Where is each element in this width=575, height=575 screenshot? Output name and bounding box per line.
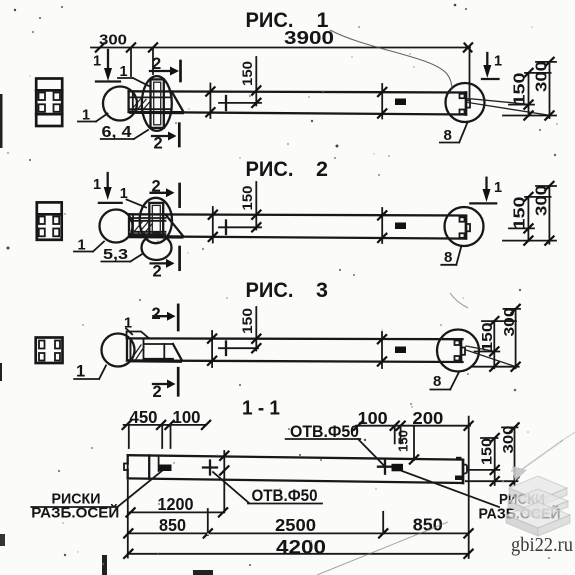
svg-text:3: 3 bbox=[316, 278, 328, 302]
svg-text:150: 150 bbox=[478, 438, 495, 465]
svg-text:2: 2 bbox=[152, 305, 161, 323]
svg-text:150: 150 bbox=[240, 61, 255, 86]
svg-text:2: 2 bbox=[153, 383, 162, 401]
svg-text:1: 1 bbox=[93, 54, 101, 70]
svg-text:1: 1 bbox=[76, 363, 85, 381]
svg-text:РИС.: РИС. bbox=[246, 278, 294, 302]
svg-text:150: 150 bbox=[512, 72, 529, 105]
svg-text:850: 850 bbox=[413, 515, 443, 535]
svg-text:8: 8 bbox=[444, 249, 452, 266]
svg-text:300: 300 bbox=[534, 185, 551, 216]
svg-text:1200: 1200 bbox=[158, 494, 194, 514]
svg-text:150: 150 bbox=[240, 308, 255, 334]
svg-text:3900: 3900 bbox=[284, 27, 334, 48]
svg-text:8: 8 bbox=[444, 127, 452, 144]
svg-text:2500: 2500 bbox=[275, 515, 316, 535]
svg-text:300: 300 bbox=[99, 33, 127, 49]
svg-text:РИС.: РИС. bbox=[246, 157, 294, 181]
svg-text:1: 1 bbox=[494, 180, 502, 196]
svg-text:300: 300 bbox=[501, 308, 518, 337]
svg-text:1: 1 bbox=[124, 316, 132, 332]
svg-text:150: 150 bbox=[240, 186, 255, 211]
svg-text:8: 8 bbox=[433, 373, 441, 390]
svg-text:2: 2 bbox=[153, 263, 162, 281]
svg-text:300: 300 bbox=[500, 426, 517, 454]
svg-text:5,3: 5,3 bbox=[103, 246, 128, 263]
svg-text:1: 1 bbox=[93, 177, 101, 193]
svg-text:1 - 1: 1 - 1 bbox=[242, 398, 280, 420]
svg-text:2: 2 bbox=[316, 157, 328, 181]
svg-text:2: 2 bbox=[154, 135, 163, 153]
svg-text:850: 850 bbox=[159, 515, 186, 535]
svg-text:1: 1 bbox=[494, 54, 502, 70]
svg-text:РАЗБ.ОСЕЙ: РАЗБ.ОСЕЙ bbox=[31, 504, 119, 522]
svg-text:4200: 4200 bbox=[276, 537, 326, 559]
svg-text:300: 300 bbox=[534, 61, 551, 92]
svg-text:ОТВ.Ф50: ОТВ.Ф50 bbox=[252, 486, 318, 505]
svg-text:150: 150 bbox=[396, 430, 411, 452]
svg-text:150: 150 bbox=[479, 323, 496, 352]
svg-text:150: 150 bbox=[512, 196, 529, 229]
svg-text:gbi22.ru: gbi22.ru bbox=[511, 534, 573, 556]
